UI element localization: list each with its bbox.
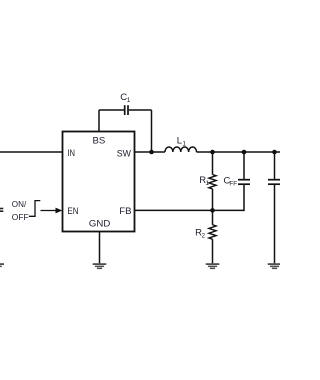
svg-text:FF: FF [229, 180, 237, 187]
step waveform symbol [29, 201, 40, 217]
resistor R2 [195, 225, 216, 240]
svg-text:1: 1 [127, 97, 131, 104]
IC U1 (regulator box) [63, 132, 135, 232]
wire: bootstrap loop top left segment [99, 109, 124, 111]
wire: rail down to CFF [243, 152, 245, 179]
svg-text:BS: BS [92, 136, 105, 147]
wire: FB pin line [135, 209, 245, 211]
wire: GND pin down to ground [99, 232, 101, 264]
ground (input capacitor, clipped at left edge) [0, 263, 4, 269]
wire: bootstrap loop drop to SW node [151, 110, 153, 152]
svg-text:IN: IN [67, 148, 75, 159]
wire: R2 bottom to ground [212, 239, 214, 263]
capacitor CFF [224, 175, 251, 187]
inductor L1 [165, 136, 197, 153]
svg-text:SW: SW [117, 149, 132, 160]
capacitor C1 (bootstrap) [120, 92, 131, 115]
ON/OFF control label [12, 199, 29, 222]
ground (GND pin) [93, 263, 107, 269]
svg-text:1: 1 [182, 141, 186, 148]
wire: SW pin to inductor [135, 151, 166, 153]
svg-text:OFF: OFF [12, 212, 29, 222]
wire: input line to IN pin [0, 151, 63, 153]
wire: node down to R2 [212, 210, 214, 224]
capacitor C2 (output, clipped at right edge) [268, 180, 280, 185]
wire: rail down to output capacitor [274, 152, 276, 179]
svg-text:ON/: ON/ [12, 199, 27, 209]
node: R1 top junction [210, 150, 215, 155]
svg-text:1: 1 [205, 180, 209, 187]
wire: inductor to output rail (right edge) [197, 151, 281, 153]
svg-text:GND: GND [89, 219, 110, 230]
arrow into EN pin [41, 208, 63, 214]
node: FB / R1 / R2 junction [210, 208, 215, 213]
resistor R1 [199, 175, 216, 189]
svg-text:L: L [177, 136, 182, 147]
wire: R1 bottom to FB line [212, 189, 214, 211]
ground (below output capacitor, clipped) [268, 263, 282, 269]
svg-text:EN: EN [67, 206, 78, 217]
svg-text:2: 2 [202, 232, 206, 239]
wire: bootstrap loop top right segment [129, 109, 152, 111]
wire: rail down to R1 [212, 152, 214, 175]
wire: BS pin up to bootstrap loop [98, 110, 100, 132]
wire: CFF bottom to FB line [243, 185, 245, 212]
ground (below R2) [206, 263, 220, 269]
node: SW/C1 junction [149, 150, 154, 155]
wire: output cap bottom to ground [274, 185, 276, 264]
node: CFF top junction [242, 150, 247, 155]
node: output cap top junction [272, 150, 277, 155]
svg-text:FB: FB [119, 206, 131, 217]
capacitor CIN (input, clipped at left edge) [0, 209, 3, 212]
